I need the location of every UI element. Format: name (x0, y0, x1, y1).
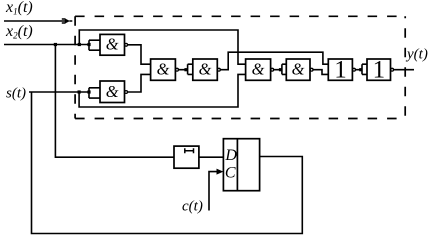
svg-text:&: & (106, 35, 119, 54)
svg-text:&: & (292, 60, 305, 79)
svg-text:&: & (252, 60, 265, 79)
svg-text:y(t): y(t) (405, 47, 428, 63)
svg-text:x2(t): x2(t) (5, 23, 33, 40)
svg-text:D: D (224, 147, 237, 164)
svg-text:&: & (199, 60, 212, 79)
svg-text:c(t): c(t) (182, 199, 203, 215)
svg-text:C: C (225, 165, 236, 182)
svg-text:1: 1 (334, 56, 347, 83)
svg-text:&: & (157, 60, 170, 79)
svg-text:1: 1 (373, 56, 386, 83)
svg-text:s(t): s(t) (6, 86, 26, 102)
svg-text:x1(t): x1(t) (5, 0, 33, 16)
svg-text:&: & (106, 82, 119, 101)
